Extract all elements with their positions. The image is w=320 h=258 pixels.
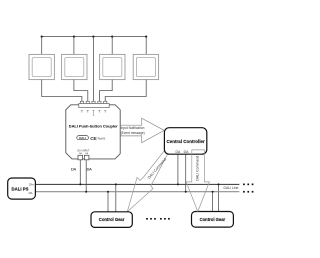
svg-text:DA+: DA+ — [29, 182, 35, 186]
svg-text:DA: DA — [71, 167, 77, 171]
junction coupler DA+ — [79, 183, 81, 185]
junction controller DA- — [185, 191, 187, 193]
wire S1 to pin 1 — [42, 80, 82, 102]
control gear 1 — [91, 212, 132, 228]
wire S3 to pin 4 — [100, 80, 113, 102]
wire S2 to pin 2 — [74, 80, 88, 102]
push-button S2 — [62, 54, 87, 79]
svg-text:DA / INPUT: DA / INPUT — [77, 150, 89, 153]
pin 1 — [80, 101, 83, 103]
wire bus to S1 — [41, 37, 43, 55]
svg-text:DALI Push-button Coupler: DALI Push-button Coupler — [69, 124, 118, 129]
wire control gear 2 to DA- bus — [212, 192, 214, 212]
svg-text:Central Controller: Central Controller — [166, 139, 205, 144]
node top bus line — [42, 36, 147, 38]
wire bus to S3 — [111, 37, 113, 55]
svg-text:DA: DA — [176, 150, 181, 154]
wire common bus to pin 3 — [92, 37, 94, 102]
pin 5 tick — [104, 110, 106, 112]
coupler U1 body — [66, 105, 120, 159]
wire S4 to pin 5 — [105, 80, 146, 102]
wire control gear 1 to DA- bus — [107, 192, 109, 212]
wire control gear 2 to DA+ bus — [218, 184, 220, 211]
junction dot J4 — [111, 36, 113, 38]
junction dot J5 — [145, 36, 147, 38]
wire controller DA to DA+ bus — [177, 154, 179, 184]
junction gear1 DA+ — [115, 183, 117, 185]
central controller U2 — [164, 128, 206, 155]
junction gear1 DA- — [107, 191, 109, 193]
wire control gear 1 to DA+ bus — [115, 184, 117, 211]
coupler terminal bar — [79, 103, 109, 107]
power supply DALI PS — [8, 178, 36, 199]
coupler bottom terminal left — [78, 155, 83, 160]
junction dot J1 — [41, 36, 43, 38]
pin 2 tick — [87, 110, 89, 112]
junction controller DA+ — [177, 183, 179, 185]
wire controller DA to DA- bus — [185, 154, 187, 192]
ellipsis DA+ line continues — [243, 184, 253, 186]
svg-text:DALI Command: DALI Command — [196, 156, 200, 181]
svg-text:DALI Line: DALI Line — [224, 186, 239, 190]
net DA+ bus line — [35, 183, 239, 185]
wire bus to S4 — [145, 37, 147, 55]
junction dot J3 — [92, 36, 94, 38]
svg-text:CE: CE — [90, 136, 97, 142]
net DA- bus line — [35, 191, 239, 193]
wire coupler DA- to bus — [85, 160, 87, 192]
pin 4 tick — [98, 110, 100, 112]
ellipsis more control gear — [146, 218, 170, 220]
junction dot J2 — [73, 36, 75, 38]
push-button S3 — [100, 54, 125, 79]
arrow DALI Command lightning bolt to gear 1 — [127, 150, 168, 212]
coupler bottom terminal right — [84, 155, 89, 160]
pin 3 — [92, 101, 95, 103]
svg-text:DA: DA — [184, 150, 189, 154]
junction gear2 DA+ — [218, 183, 220, 185]
junction coupler DA- — [85, 191, 87, 193]
arrow DALI Command down to gear 2 — [186, 150, 209, 212]
control gear 2 — [192, 212, 234, 228]
pin 5 — [104, 101, 107, 103]
pin 1 tick — [81, 110, 83, 112]
pin 4 — [98, 101, 101, 103]
pin 2 — [86, 101, 89, 103]
svg-text:Control Gear: Control Gear — [99, 217, 125, 222]
svg-text:(Event message): (Event message) — [121, 131, 145, 135]
pin 3 tick — [92, 110, 94, 115]
svg-text:Input Notification: Input Notification — [121, 126, 145, 130]
svg-text:DALI PS: DALI PS — [12, 186, 29, 191]
arrow input notification — [120, 118, 164, 143]
wire coupler DA+ to bus — [79, 160, 81, 185]
logo DALI — [77, 136, 89, 140]
push-button S1 — [29, 54, 54, 79]
svg-text:RoHS: RoHS — [98, 136, 106, 140]
svg-text:DA: DA — [87, 167, 93, 171]
svg-text:DA-: DA- — [29, 191, 34, 195]
wire bus to S2 — [73, 37, 75, 55]
svg-text:Control Gear: Control Gear — [200, 217, 226, 222]
junction gear2 DA- — [212, 191, 214, 193]
svg-text:DALI: DALI — [79, 136, 86, 140]
push-button S4 — [133, 54, 158, 79]
ellipsis DA- line continues — [243, 191, 253, 193]
